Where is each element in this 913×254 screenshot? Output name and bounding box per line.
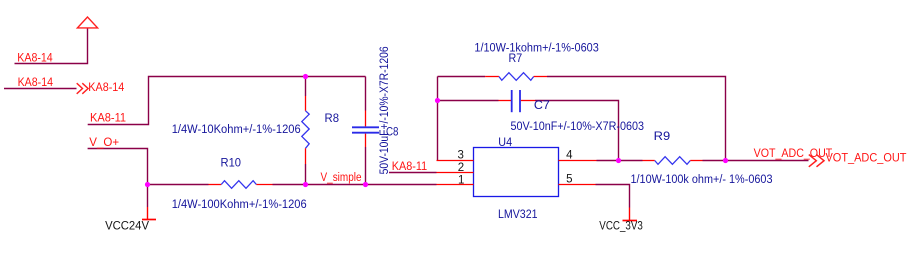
resistor R8: [302, 96, 309, 164]
wire C7 row: [438, 101, 619, 161]
svg-text:1: 1: [458, 174, 464, 186]
svg-text:R8: R8: [325, 113, 340, 125]
resistor R7: [485, 73, 547, 81]
wire V_simple bottom rail (left of R10): [148, 184, 209, 186]
port chevron KA8-14: [77, 83, 88, 94]
svg-text:1/10W-100k ohm+/- 1%-0603: 1/10W-100k ohm+/- 1%-0603: [631, 174, 773, 186]
svg-text:KA8-11: KA8-11: [392, 161, 427, 173]
wire R8 bottom branch: [305, 164, 307, 185]
junction V_O+ / R10 / VCC24V: [145, 182, 150, 187]
svg-text:KA8-14: KA8-14: [18, 77, 54, 89]
pin 1 stub: [437, 184, 474, 186]
capacitor C8: [352, 111, 379, 148]
power VCC_3V3 symbol: [623, 208, 638, 221]
junction bottom rail / C8: [363, 182, 368, 187]
capacitor C7: [499, 90, 536, 112]
power symbol triangle (KA8-14): [77, 17, 97, 28]
power VCC24V symbol: [142, 207, 156, 220]
junction bottom rail / R8: [303, 182, 308, 187]
svg-text:1/10W-1kohm+/-1%-0603: 1/10W-1kohm+/-1%-0603: [474, 42, 598, 54]
wire VCC24V stub: [147, 185, 149, 208]
wire feedback top (R7 row): [438, 77, 726, 161]
svg-text:C7: C7: [534, 100, 550, 112]
svg-text:VOT_ADC_OUT: VOT_ADC_OUT: [754, 148, 833, 160]
svg-text:V_O+: V_O+: [89, 137, 119, 149]
svg-text:50V-10nF+/-10%-X7R-0603: 50V-10nF+/-10%-X7R-0603: [511, 121, 645, 133]
svg-text:VCC_3V3: VCC_3V3: [599, 221, 643, 233]
svg-text:R7: R7: [509, 53, 523, 65]
svg-text:2: 2: [458, 162, 464, 174]
wire V_simple bottom rail (right of R10 to op-amp pin1): [273, 184, 437, 186]
svg-text:VOT_ADC_OUT: VOT_ADC_OUT: [826, 152, 907, 164]
wire output row (pin4 to R9): [597, 160, 643, 162]
resistor R10: [209, 181, 273, 189]
junction feedback / C7 row: [435, 98, 440, 103]
svg-text:5: 5: [566, 174, 572, 186]
pin 4 stub: [559, 160, 597, 162]
junction output / C7 branch: [616, 158, 621, 163]
wire net KA8-14 (second, to port): [4, 88, 77, 90]
port chevron VOT_ADC_OUT: [809, 155, 824, 167]
wire output row (R9 to port): [703, 160, 809, 162]
junction output / R7 branch: [723, 158, 728, 163]
svg-text:50V-10uF+/-10%-X7R-1206: 50V-10uF+/-10%-X7R-1206: [379, 46, 391, 174]
wire C8 bottom branch: [365, 147, 367, 185]
wire feedback vertical (pin 3 up to loop): [437, 77, 439, 161]
wire V_O+ net: [88, 149, 148, 185]
resistor R9: [643, 157, 703, 165]
svg-text:R9: R9: [654, 131, 671, 143]
wire R8 top branch: [305, 77, 307, 97]
op-amp U4 body: [474, 148, 559, 197]
svg-text:1/4W-100Kohm+/-1%-1206: 1/4W-100Kohm+/-1%-1206: [172, 199, 307, 211]
svg-text:VCC24V: VCC24V: [105, 220, 149, 232]
svg-text:LMV321: LMV321: [498, 209, 538, 221]
pin 3 stub: [437, 160, 474, 162]
svg-text:3: 3: [458, 150, 464, 162]
wire net KA8-14 (top, to power symbol): [15, 29, 88, 64]
wire net KA8-11 (left label stub + top rail): [88, 77, 366, 125]
wire pin 5 to VCC_3V3: [596, 185, 630, 208]
svg-text:U4: U4: [498, 137, 512, 149]
pin 2 stub: [437, 172, 474, 174]
svg-text:KA8-11: KA8-11: [90, 112, 126, 124]
svg-text:R10: R10: [221, 157, 242, 169]
svg-text:KA8-14: KA8-14: [17, 53, 53, 65]
wire C8 top branch: [365, 77, 367, 111]
svg-text:V_simple: V_simple: [321, 172, 362, 184]
wire KA8-11 to pin 2: [389, 172, 437, 174]
svg-text:4: 4: [566, 150, 573, 162]
pin 5 stub: [559, 184, 596, 186]
junction top rail / R8: [303, 74, 308, 79]
svg-text:1/4W-10Kohm+/-1%-1206: 1/4W-10Kohm+/-1%-1206: [172, 124, 301, 136]
svg-text:KA8-14: KA8-14: [88, 82, 125, 94]
